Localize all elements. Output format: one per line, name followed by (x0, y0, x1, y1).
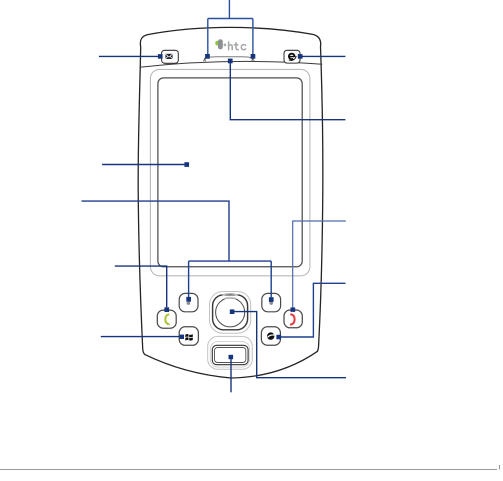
node square voice command (229, 355, 234, 359)
IE e icon (289, 54, 297, 61)
callout: call button line (115, 266, 167, 307)
d-pad middle ring (213, 295, 248, 330)
callout: voice command line (230, 358, 232, 392)
callout: soft keys bracket (82, 201, 272, 297)
right soft key dot (269, 301, 273, 305)
voice record button inner (215, 348, 246, 363)
callout: notification LEDs top bracket (208, 0, 253, 55)
ok button (261, 327, 280, 345)
callout: ok button line (280, 283, 345, 337)
callout: enter button line (234, 312, 347, 378)
callout: windows start line (101, 336, 180, 338)
right soft key (262, 293, 281, 311)
node square left LED (205, 54, 210, 59)
left soft key dot (187, 301, 191, 305)
voice record button dark frame (212, 345, 248, 364)
end button (284, 310, 302, 328)
touch screen inner (158, 78, 302, 267)
node square IE (298, 54, 303, 59)
d-pad enter button (216, 298, 245, 327)
callout: end button line (293, 221, 346, 307)
node square touch screen (184, 162, 189, 167)
call button Q1 (157, 310, 176, 328)
screen bezel outer (150, 69, 310, 275)
node square call (164, 307, 169, 312)
node square enter (230, 309, 235, 314)
callout: messaging button line (99, 55, 159, 57)
speaker hump (204, 57, 255, 62)
voice record button mid (210, 341, 249, 367)
node square ok (276, 335, 281, 340)
bottom page rule (0, 465, 500, 470)
voice record button outer (208, 336, 253, 369)
callout: speaker line (230, 61, 345, 119)
d-pad outer ring (210, 292, 251, 334)
left soft key (179, 293, 198, 311)
red end ) glyph (290, 314, 295, 324)
messaging button (162, 50, 179, 63)
htc logo (215, 39, 246, 50)
internet explorer button (284, 50, 300, 63)
windows flag icon (185, 334, 193, 340)
d-pad top highlight (222, 294, 238, 295)
envelope icon (165, 54, 172, 59)
node square speaker (228, 59, 233, 64)
green call ( glyph (165, 314, 169, 324)
callout: internet explorer line (302, 55, 346, 57)
device body outline (138, 27, 323, 378)
node square left soft key (186, 297, 191, 302)
seam line between top cap and body (140, 61, 323, 67)
node square messaging (158, 54, 163, 59)
speaker hump end ticks (205, 58, 253, 62)
callout: touch screen line (102, 164, 186, 166)
windows start button (179, 327, 198, 346)
node square end (291, 307, 296, 312)
ok icon (267, 332, 274, 339)
node square windows (180, 335, 184, 339)
node square right LED (251, 54, 256, 59)
node square right soft key (269, 297, 274, 302)
